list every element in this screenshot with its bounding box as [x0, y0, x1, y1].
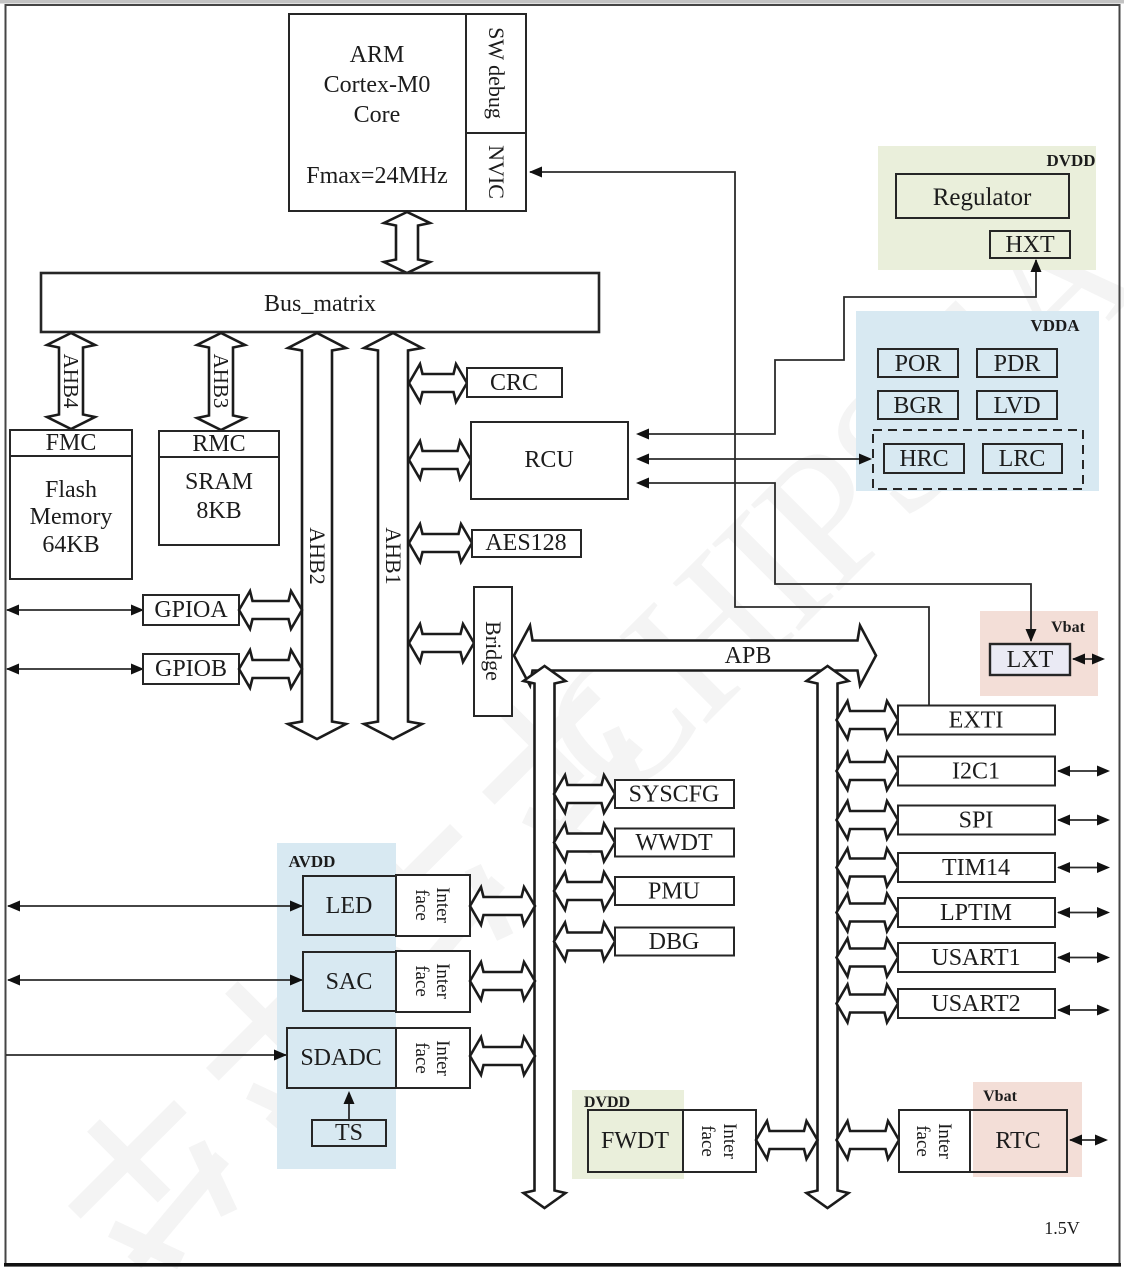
watermark glyph 3 [316, 796, 534, 1014]
wire SPI external [1058, 819, 1107, 821]
block RCU [471, 422, 628, 499]
block TIM14 [898, 853, 1055, 882]
block ARM Cortex-M0 Core [289, 14, 466, 211]
svg-text:face: face [912, 1125, 933, 1157]
block LXT [990, 644, 1070, 675]
arrow APB to SYSCFG [554, 775, 615, 813]
svg-text:TS: TS [335, 1120, 363, 1146]
svg-text:SAC: SAC [326, 969, 373, 995]
block HXT [990, 231, 1070, 258]
svg-text:HRC: HRC [899, 446, 948, 472]
wire LXT external [1073, 658, 1103, 660]
block AES128 [472, 530, 581, 557]
block FWDT interface [683, 1110, 756, 1172]
svg-text:BGR: BGR [893, 393, 942, 419]
block RMC / SRAM 8KB [159, 431, 279, 545]
block USART1 [898, 943, 1055, 972]
svg-text:ARM: ARM [350, 42, 405, 68]
block PDR [977, 349, 1057, 377]
wire TS to SDADC [348, 1093, 350, 1120]
watermark glyph 2 [178, 934, 396, 1152]
svg-text:Memory: Memory [30, 504, 113, 530]
svg-text:AES128: AES128 [485, 530, 566, 556]
svg-text:Vbat: Vbat [983, 1088, 1017, 1105]
block SW debug [466, 14, 526, 133]
block I2C1 [898, 757, 1055, 786]
block SPI [898, 806, 1055, 835]
block FWDT [588, 1110, 683, 1172]
svg-text:RTC: RTC [995, 1128, 1040, 1154]
block DBG [615, 928, 734, 956]
block GPIOA [143, 595, 239, 625]
svg-text:LXT: LXT [1007, 647, 1054, 673]
svg-text:face: face [697, 1125, 718, 1157]
svg-text:GPIOA: GPIOA [154, 597, 228, 623]
block LRC [983, 444, 1062, 473]
bus AHB2 [288, 333, 346, 739]
svg-text:APB: APB [725, 643, 772, 669]
block CRC [467, 368, 562, 397]
arrow AHB1 to RCU [409, 441, 471, 479]
svg-text:face: face [411, 889, 432, 921]
svg-text:AVDD: AVDD [289, 852, 336, 871]
bottom frame line [4, 1263, 1121, 1267]
region Vbat RTC [973, 1082, 1082, 1177]
svg-text:LRC: LRC [999, 446, 1046, 472]
bus vertical APB left [524, 666, 566, 1208]
svg-text:DVDD: DVDD [584, 1094, 630, 1111]
svg-text:SPI: SPI [959, 808, 994, 834]
svg-text:FWDT: FWDT [601, 1128, 669, 1154]
watermark glyph 4 [454, 658, 672, 876]
arrow GPIOB to AHB2 [239, 650, 302, 688]
svg-text:LED: LED [326, 893, 373, 919]
svg-text:POR: POR [895, 351, 942, 377]
svg-text:AHB3: AHB3 [209, 354, 233, 409]
arrow AHB1 to Bridge [409, 624, 474, 662]
region DVDD bottom [572, 1090, 684, 1179]
block LED interface [396, 875, 470, 936]
svg-text:SRAM: SRAM [185, 469, 253, 495]
svg-text:Inter: Inter [432, 887, 453, 924]
svg-text:Core: Core [354, 102, 401, 128]
block GPIOB [143, 654, 239, 684]
wire left to SDADC [6, 1054, 286, 1056]
bus APB [514, 626, 876, 686]
arrow LED interface to APB [470, 887, 535, 925]
block SDADC [287, 1028, 396, 1088]
svg-text:PDR: PDR [994, 351, 1041, 377]
block SAC interface [396, 951, 470, 1012]
svg-text:SYSCFG: SYSCFG [629, 782, 720, 808]
block Bridge [474, 587, 512, 716]
wire TIM14 external [1058, 867, 1107, 869]
arrow APB to RTC [837, 1121, 900, 1159]
svg-text:1.5V: 1.5V [1044, 1218, 1080, 1238]
svg-text:RCU: RCU [524, 447, 573, 473]
svg-text:LPTIM: LPTIM [940, 900, 1012, 926]
svg-text:face: face [411, 965, 432, 997]
arrow SDADC interface to APB [470, 1037, 535, 1075]
block TS [312, 1120, 386, 1146]
svg-text:FMC: FMC [46, 430, 97, 456]
bus AHB1 [364, 333, 422, 739]
block FMC / Flash Memory 64KB [10, 430, 132, 579]
svg-text:Fmax=24MHz: Fmax=24MHz [306, 163, 448, 189]
wire RCU to HRC [640, 458, 870, 460]
wire RCU to HXT [640, 260, 1036, 434]
region DVDD top [878, 146, 1096, 270]
svg-text:64KB: 64KB [42, 532, 99, 558]
svg-text:Inter: Inter [432, 1040, 453, 1077]
svg-text:AHB1: AHB1 [381, 527, 406, 584]
svg-text:8KB: 8KB [196, 498, 241, 524]
svg-text:Inter: Inter [934, 1123, 955, 1160]
svg-text:DVDD: DVDD [1046, 151, 1095, 170]
svg-text:AHB4: AHB4 [59, 354, 83, 409]
svg-text:RMC: RMC [192, 431, 245, 457]
dashed group HRC LRC [873, 430, 1083, 489]
bus vertical APB right [807, 666, 849, 1208]
arrow APB to TIM14 [837, 849, 899, 887]
arrow SAC interface to APB [470, 962, 535, 1000]
svg-text:TIM14: TIM14 [942, 855, 1010, 881]
wire NVIC to EXTI [530, 172, 929, 706]
arrow APB to LPTIM [837, 894, 899, 932]
block LPTIM [898, 898, 1055, 927]
svg-text:Vbat: Vbat [1051, 619, 1085, 636]
block LED [303, 876, 396, 935]
svg-text:DBG: DBG [649, 929, 700, 955]
svg-text:USART2: USART2 [931, 991, 1020, 1017]
arrow APB to PMU [554, 872, 615, 910]
svg-text:SW debug: SW debug [484, 27, 509, 119]
block PMU [615, 877, 734, 905]
svg-text:Regulator: Regulator [933, 184, 1032, 211]
arrow FWDT to APB [756, 1121, 818, 1159]
block HRC [884, 444, 964, 473]
block LVD [977, 391, 1057, 419]
arrow APB to I2C1 [837, 752, 899, 790]
svg-text:Flash: Flash [45, 477, 97, 503]
arrow APB to USART2 [837, 985, 899, 1023]
wire left to LED [8, 905, 302, 907]
block Regulator [896, 174, 1069, 218]
svg-text:face: face [411, 1042, 432, 1074]
block SYSCFG [615, 780, 734, 808]
svg-text:CRC: CRC [490, 370, 538, 396]
arrow APB to WWDT [554, 824, 615, 862]
svg-text:I2C1: I2C1 [952, 759, 1000, 785]
wire RCU to LXT [640, 483, 1031, 641]
wire RTC external [1070, 1139, 1106, 1141]
svg-text:HXT: HXT [1005, 232, 1055, 258]
svg-text:Bus_matrix: Bus_matrix [264, 291, 376, 317]
wire USART2 external [1058, 1009, 1107, 1011]
watermark glyph 1 [40, 1072, 258, 1269]
block SAC [303, 952, 396, 1011]
region AVDD [277, 843, 396, 1169]
svg-text:NVIC: NVIC [484, 145, 509, 199]
block POR [878, 349, 958, 377]
svg-text:Inter: Inter [432, 963, 453, 1000]
block RTC interface [899, 1110, 970, 1172]
arrow APB to DBG [554, 923, 615, 961]
svg-text:Bridge: Bridge [481, 621, 506, 681]
svg-text:USART1: USART1 [931, 945, 1020, 971]
block EXTI [898, 706, 1055, 735]
block BGR [878, 391, 958, 419]
bus AHB3 [197, 333, 245, 430]
svg-text:Inter: Inter [719, 1123, 740, 1160]
region Vbat LXT [980, 611, 1098, 696]
wire left to GPIOB [7, 668, 143, 670]
wire left to SAC [8, 979, 302, 981]
wire USART1 external [1058, 957, 1107, 959]
bus arrow core to matrix [384, 212, 430, 273]
block RTC [970, 1110, 1067, 1172]
svg-text:LVD: LVD [993, 393, 1040, 419]
block USART2 [898, 989, 1055, 1018]
svg-text:VDDA: VDDA [1030, 316, 1080, 335]
wire LPTIM external [1058, 912, 1107, 914]
arrow APB to USART1 [837, 939, 899, 977]
arrow GPIOA to AHB2 [239, 591, 302, 629]
block Bus_matrix [41, 273, 599, 332]
svg-text:AHB2: AHB2 [305, 527, 330, 584]
top gray strip [0, 0, 1124, 4]
svg-text:GPIOB: GPIOB [155, 656, 227, 682]
watermark diagonal CHIPSEA [499, 165, 1124, 841]
wire I2C1 external [1058, 770, 1107, 772]
arrow APB to EXTI [837, 701, 899, 739]
svg-text:EXTI: EXTI [949, 708, 1004, 734]
wire left to GPIOA [7, 609, 143, 611]
svg-text:Cortex-M0: Cortex-M0 [324, 72, 431, 98]
block SDADC interface [396, 1028, 470, 1088]
svg-text:PMU: PMU [648, 879, 700, 905]
arrow AHB1 to CRC [409, 364, 467, 402]
block WWDT [615, 829, 734, 857]
region VDDA [856, 311, 1099, 491]
svg-text:SDADC: SDADC [300, 1045, 381, 1071]
bus AHB4 [47, 333, 95, 429]
arrow APB to SPI [837, 801, 899, 839]
block NVIC [466, 133, 526, 211]
svg-text:WWDT: WWDT [635, 830, 713, 856]
arrow AHB1 to AES128 [409, 524, 472, 562]
